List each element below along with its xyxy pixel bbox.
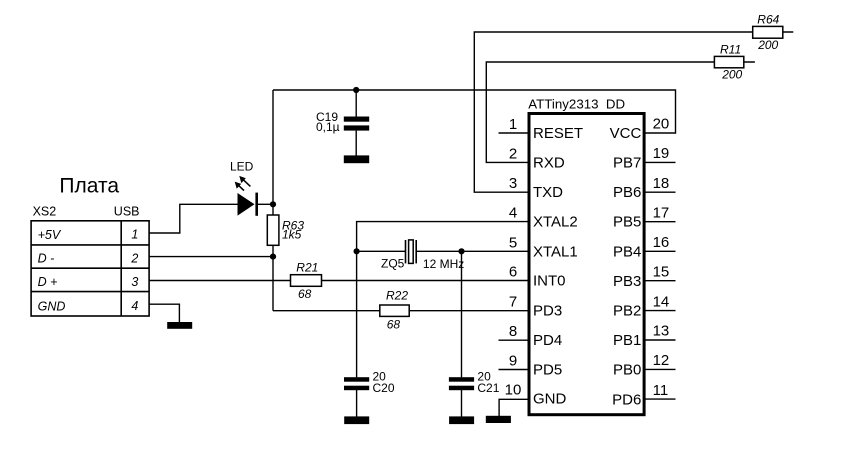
svg-text:5: 5 [509,234,517,251]
svg-text:D -: D - [38,252,55,266]
svg-text:200: 200 [721,68,742,82]
svg-text:PB7: PB7 [613,154,641,171]
svg-text:TXD: TXD [533,184,563,201]
svg-text:12 MHz: 12 MHz [423,257,464,271]
svg-text:7: 7 [509,293,517,310]
svg-text:C21: C21 [477,381,499,395]
svg-text:PB0: PB0 [613,361,641,378]
svg-text:0,1µ: 0,1µ [316,120,340,134]
svg-text:68: 68 [298,287,312,301]
svg-text:4: 4 [509,205,517,222]
svg-text:PB3: PB3 [613,273,641,290]
svg-text:17: 17 [653,204,670,221]
svg-text:12: 12 [653,352,670,369]
svg-text:ATTiny2313 DD: ATTiny2313 DD [528,96,625,111]
svg-text:USB: USB [114,204,140,218]
svg-text:13: 13 [653,323,670,340]
svg-text:18: 18 [653,175,670,192]
svg-text:68: 68 [387,318,401,332]
svg-text:C20: C20 [373,381,395,395]
svg-text:10: 10 [505,382,522,399]
svg-text:9: 9 [509,352,517,369]
svg-text:+5V: +5V [38,228,62,242]
svg-text:R64: R64 [757,13,779,27]
svg-text:XTAL1: XTAL1 [533,243,578,260]
svg-text:11: 11 [653,382,669,399]
svg-text:3: 3 [509,175,517,192]
svg-text:XTAL2: XTAL2 [533,214,578,231]
svg-text:200: 200 [757,38,778,52]
svg-text:8: 8 [509,323,517,340]
svg-text:D +: D + [38,275,58,289]
svg-text:VCC: VCC [610,125,642,142]
svg-text:PB2: PB2 [613,303,641,320]
svg-text:ZQ5: ZQ5 [381,257,405,271]
svg-text:4: 4 [131,299,138,313]
svg-text:3: 3 [131,275,138,289]
svg-text:2: 2 [130,251,138,265]
svg-text:RESET: RESET [533,125,583,142]
svg-text:GND: GND [533,390,567,407]
svg-text:1k5: 1k5 [282,228,302,242]
svg-text:PD3: PD3 [533,303,562,320]
svg-text:Плата: Плата [59,175,119,198]
svg-text:6: 6 [509,264,517,281]
svg-text:1: 1 [509,116,517,133]
svg-text:R11: R11 [720,42,741,56]
svg-text:PB4: PB4 [613,243,641,260]
svg-text:16: 16 [653,234,670,251]
svg-text:PB6: PB6 [613,184,641,201]
svg-text:PD5: PD5 [533,362,562,379]
svg-text:LED: LED [230,159,254,173]
svg-text:14: 14 [653,293,670,310]
svg-text:15: 15 [653,263,670,280]
svg-text:PB5: PB5 [613,214,641,231]
svg-text:INT0: INT0 [533,273,566,290]
svg-text:1: 1 [131,228,138,242]
svg-text:PB1: PB1 [613,332,641,349]
svg-text:R21: R21 [296,260,318,274]
svg-text:PD4: PD4 [533,332,562,349]
svg-text:PD6: PD6 [612,391,641,408]
svg-text:R22: R22 [386,289,408,303]
svg-text:2: 2 [509,145,517,162]
svg-text:RXD: RXD [533,154,565,171]
svg-text:GND: GND [38,299,66,313]
svg-text:19: 19 [653,145,670,162]
svg-text:20: 20 [653,116,670,133]
svg-text:XS2: XS2 [33,204,57,218]
